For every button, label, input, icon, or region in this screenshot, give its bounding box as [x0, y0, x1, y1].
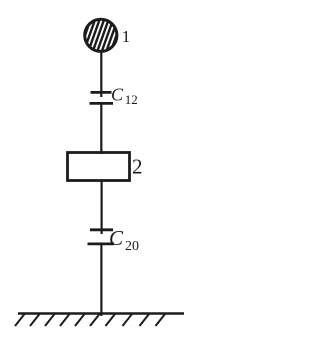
- svg-text:C: C: [111, 85, 124, 105]
- wire (body 2 to C20): [100, 181, 102, 230]
- body 2 (rectangle): [68, 153, 130, 181]
- ground: [15, 314, 184, 327]
- svg-text:1: 1: [122, 27, 131, 46]
- svg-text:C: C: [109, 226, 124, 250]
- wire (ball to C12): [100, 52, 102, 92]
- capacitor C20: [88, 230, 115, 244]
- capacitor C12: [90, 92, 114, 103]
- svg-text:20: 20: [125, 239, 139, 254]
- wire (C12 to body 2): [100, 104, 102, 154]
- label C12: [111, 85, 138, 108]
- node 1 (hatched sphere terminal): [80, 19, 123, 51]
- label C20: [109, 226, 139, 254]
- svg-text:12: 12: [125, 92, 138, 107]
- wire (C20 to ground): [100, 245, 102, 316]
- svg-text:2: 2: [132, 155, 143, 179]
